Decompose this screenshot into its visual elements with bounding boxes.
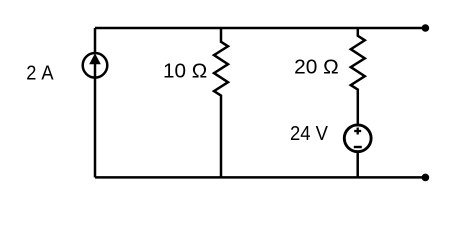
wire: bottom rail from left corner to terminal b xyxy=(95,176,425,179)
resistor 10 ohm branch (wire + zigzag) xyxy=(214,28,228,177)
voltage source (24 V) xyxy=(344,125,371,152)
node terminal a (top right dot) xyxy=(422,24,430,32)
svg-text:24 V: 24 V xyxy=(290,122,328,145)
current source (2 A) xyxy=(83,53,108,78)
svg-text:2 A: 2 A xyxy=(26,62,54,85)
wire: voltage source bottom lead xyxy=(356,152,359,178)
wire: left branch vertical xyxy=(94,28,97,177)
wire: top rail from left corner to terminal a xyxy=(95,27,425,30)
svg-text:10 Ω: 10 Ω xyxy=(163,60,207,83)
node terminal b (bottom right dot) xyxy=(422,174,430,182)
svg-text:20 Ω: 20 Ω xyxy=(294,55,339,78)
resistor 20 ohm branch (top lead + zigzag + lead to source) xyxy=(351,28,365,124)
